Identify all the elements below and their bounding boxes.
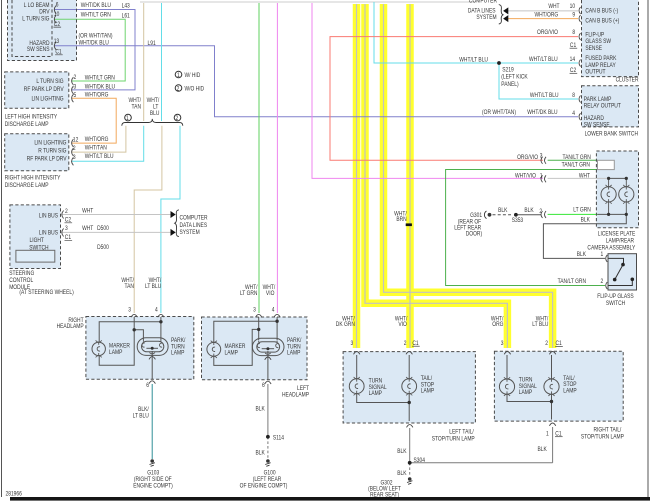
svg-text:WHT/DK BLU: WHT/DK BLU [527,110,557,117]
tail grounds labels [380,447,547,487]
license box name [587,231,635,252]
svg-text:OF ENGINE COMPT): OF ENGINE COMPT) [240,483,288,490]
svg-text:BLK: BLK [577,252,587,259]
wire pin3 drop to stadium [258,317,260,340]
connector arcs cluster pins 10/9/8/14 [579,7,581,67]
wire ORG/VIO cluster pin8 to license plate pin3 [330,37,578,161]
wire core WHT/DK GRN [356,4,358,348]
right HID lamp dashed box [5,134,69,171]
left headlamp interior wiring [214,317,277,380]
wire marker top to pin4 line [214,321,277,342]
wire BLK right tail drop [552,427,554,463]
svg-text:SW SENS: SW SENS [27,47,50,54]
svg-text:3: 3 [501,341,504,348]
connector arcs left headlamp pins 3/4 [256,314,281,317]
svg-text:BLU: BLU [150,111,160,118]
svg-text:2: 2 [404,341,407,348]
wire WHT/LT GRN feed to left headlamp pin3 [258,3,260,313]
svg-text:BLK: BLK [397,449,407,456]
svg-text:STEERING: STEERING [9,271,34,278]
body control module outer dashed box [8,0,77,61]
connector arcs steering pins 2/3 [62,211,64,237]
ground G100 [265,459,270,466]
svg-text:L TURN SIG: L TURN SIG [22,16,49,23]
svg-text:VIO: VIO [398,322,406,329]
svg-text:R TURN SIG: R TURN SIG [38,148,66,155]
wire WHT LIN BUS pin2 to data-lines arrow [62,214,171,216]
svg-text:FUSED PARK: FUSED PARK [585,56,616,63]
svg-text:2: 2 [545,341,548,348]
svg-text:WHT/LT BLU: WHT/LT BLU [529,57,558,64]
svg-text:L91: L91 [148,40,156,47]
wire lamp bottom rail (dark) [598,213,627,215]
wire WHT/LT BLU S219 drop to lower bank pin8 [499,63,578,99]
left headlamp box fill [202,317,308,380]
svg-text:LAMP: LAMP [421,388,435,395]
svg-text:DK GRN: DK GRN [336,322,355,329]
inline connector mark on WHT/BRN wire [406,223,412,226]
tail box names [432,427,624,442]
flip-up glass switch solid box [608,254,637,290]
data lines arrow right (to steering wires) top [171,211,176,218]
underline C2/C1 BCM [53,27,62,55]
svg-text:DATA LINES: DATA LINES [179,223,207,230]
svg-text:SYSTEM: SYSTEM [476,15,497,22]
junction dot right tail [550,400,553,403]
marker lamp bulb left headlamp [207,341,221,358]
steering control module labels [39,213,58,237]
wire BLK dashed S304 to G302 [409,463,411,476]
svg-text:6: 6 [56,2,59,9]
svg-text:12: 12 [73,137,78,144]
svg-text:BLK: BLK [256,406,266,413]
wire L61 WHT/LT GRN: BCM pin10 to left HID pin2 [55,19,126,81]
svg-text:MARKER: MARKER [109,343,130,350]
svg-text:ORG/VIO: ORG/VIO [517,155,538,162]
circled 2 legend [175,85,182,92]
svg-text:WHT/DK BLU: WHT/DK BLU [85,84,115,91]
turn signal bulb left tail [349,377,364,395]
svg-text:COMPUTER: COMPUTER [179,215,207,222]
tail/stop bulb left tail [402,377,417,395]
license plate lamp bulb right [619,178,634,214]
junction dot left headlamp pin4 [275,320,278,323]
svg-text:LIN BUS: LIN BUS [39,230,58,237]
right HID labels [27,140,67,163]
svg-text:LAMP: LAMP [171,350,185,357]
svg-text:CLUSTER: CLUSTER [616,77,639,84]
svg-text:2: 2 [601,279,604,286]
svg-text:TAN/LT GRN: TAN/LT GRN [562,162,590,169]
YELLOW [357,4,553,348]
svg-text:W/ HID: W/ HID [185,73,201,80]
data lines arrow left (can bus) top [503,7,508,14]
wire BLK S353 to license pin2 [518,214,542,216]
svg-text:1: 1 [601,252,604,259]
svg-text:2: 2 [539,208,542,215]
wire pin4 drop into stadium right element [276,317,278,340]
svg-text:COMPUTER: COMPUTER [469,0,497,4]
wire WHT/LT BLU park relay: S219 run [374,2,578,63]
svg-text:WHT/VIO: WHT/VIO [515,173,536,180]
svg-text:WHT/ORG: WHT/ORG [534,12,558,19]
wire WHT D500 LIN BUS pin3 to data-lines arrow [62,231,171,233]
svg-text:1: 1 [177,72,180,79]
wire WHT/VIO to license plate lamp pin1 [312,3,543,178]
svg-text:WHT/DK BLU: WHT/DK BLU [78,40,108,47]
wire WHT/ORG can bus plus [508,18,578,20]
svg-text:W/O HID: W/O HID [185,86,205,93]
svg-text:WHT/LT BLU: WHT/LT BLU [459,57,488,64]
brace left data lines [175,210,179,237]
left HID discharge lamp box fill [5,72,69,108]
svg-text:SYSTEM: SYSTEM [179,230,200,237]
wire WHT/ORG U-loop: left HID pin5 to right HID pin12 [72,98,116,143]
svg-text:6: 6 [146,382,149,389]
cluster box fill [582,0,639,77]
splice S219 dot [497,61,501,65]
svg-text:LEFT HIGH INTENSITY: LEFT HIGH INTENSITY [5,114,58,121]
junction dot left headlamp pin3 [257,328,260,331]
svg-text:STOP/TURN LAMP: STOP/TURN LAMP [581,434,624,441]
ground G103 [150,459,155,466]
svg-text:L43: L43 [122,3,130,10]
right tail interior wiring [507,355,552,420]
connector arcs right headlamp pins 3/4 (vertical) [131,314,164,317]
lower bank switch box fill [582,86,639,127]
svg-text:(OR WHT/TAN): (OR WHT/TAN) [482,110,516,117]
svg-text:2: 2 [73,75,76,82]
svg-text:(OR WHT/TAN): (OR WHT/TAN) [78,33,112,40]
svg-text:3: 3 [73,84,76,91]
cluster rows [529,4,575,64]
wire L43 WHT/DK BLU: BCM pin6 to left HID pin3 [55,10,135,90]
svg-text:SENSE: SENSE [585,46,602,53]
cluster dashed box [582,0,639,77]
lower bank switch dashed box [582,86,639,127]
svg-text:(LEFT KICK: (LEFT KICK [501,74,528,81]
svg-text:3: 3 [351,341,354,348]
svg-text:4: 4 [155,307,158,314]
svg-text:3: 3 [65,226,68,233]
data lines arrow left (can bus) bottom [503,15,508,22]
wire marker top to pin4 line [99,322,161,342]
svg-text:8: 8 [572,93,575,100]
svg-text:LT BLU: LT BLU [145,284,161,291]
steering control module dashed box [10,205,61,269]
svg-text:1: 1 [126,116,129,123]
right tail dashed box [494,351,623,421]
svg-text:S219: S219 [502,67,513,74]
page left border [1,0,3,497]
connector arcs license pins 3/1/2 (double) [541,157,546,218]
brace right data lines [499,5,503,24]
svg-text:5: 5 [73,93,76,100]
junction dot right headlamp pin3 [133,328,136,331]
splice S304 dot [408,461,412,465]
wire TAN/LT GRN return loop to flip-up switch pin2 [446,170,605,286]
svg-text:WHT: WHT [82,226,94,233]
svg-text:WHT: WHT [548,4,560,11]
connector arcs lower bank pins 8/4 [579,96,581,121]
svg-text:D500: D500 [97,244,109,251]
svg-text:L TURN SIG: L TURN SIG [36,79,63,86]
wire marker loop bottom [99,330,134,365]
bottom black bar [10,497,650,501]
svg-text:8: 8 [572,30,575,37]
svg-text:TAN: TAN [132,104,141,111]
junction dot park/turn bottom left headlamp [266,347,269,350]
wire BLK left tail to S304 [409,428,411,463]
steering control module box fill [10,205,61,269]
svg-text:LOWER BANK SWITCH: LOWER BANK SWITCH [585,131,638,138]
license plate rows [515,153,591,224]
wire park/turn bottom out [151,351,153,379]
svg-text:RF PARK LP DRV: RF PARK LP DRV [27,156,67,163]
wire pin3 drop to junction [133,317,135,330]
svg-text:WHT: WHT [579,173,591,180]
page right border [647,0,649,497]
right headlamp interior wiring [99,317,161,379]
svg-text:BLK: BLK [256,450,266,457]
svg-text:L LO BEAM: L LO BEAM [24,3,50,10]
wire TAN/LT GRN into license assembly [548,159,598,161]
wire marker loop bottom [214,329,259,365]
svg-text:SWITCH: SWITCH [606,300,625,307]
svg-text:(AT STEERING WHEEL): (AT STEERING WHEEL) [19,290,73,297]
svg-text:TAN/LT GRN: TAN/LT GRN [558,279,586,286]
svg-text:WHT/LT BLU: WHT/LT BLU [85,154,114,161]
circled 2 at brace [174,114,181,121]
turn signal bulb right tail [499,377,514,396]
svg-text:RELAY OUTPUT: RELAY OUTPUT [584,103,622,110]
HID variant split brace [122,119,183,126]
right headlamp labels [57,317,85,330]
wire core WHT/ORG [365,4,507,348]
svg-text:LAMP: LAMP [109,350,123,357]
junction dot left tail [408,401,411,404]
svg-text:LIN LIGHTING: LIN LIGHTING [34,140,66,147]
svg-text:10: 10 [54,12,59,19]
wire WHT/LT BLU main feed (top) [161,3,163,121]
svg-text:SWITCH: SWITCH [29,245,48,252]
svg-text:LIN LIGHTING: LIN LIGHTING [31,96,63,103]
tail feeds wire labels [336,211,549,328]
svg-text:LAMP: LAMP [369,391,383,398]
flip-up switch labels [558,252,604,285]
connector arcs left tail pins 3/2 [354,352,413,428]
svg-text:BLK: BLK [498,208,508,215]
svg-text:1: 1 [540,173,543,180]
body control module box fill (top-left) [8,0,77,61]
junction dot park/turn bottom right headlamp [151,347,154,350]
wire pin4 drop into park/turn right element [160,317,162,340]
body control module inner connector dashed box [12,0,52,57]
wire BLK/LT BLU right headlamp ground [151,384,153,459]
svg-text:2: 2 [65,208,68,215]
svg-text:LT BLU: LT BLU [532,322,548,329]
svg-text:BLK: BLK [581,217,591,224]
svg-text:4: 4 [572,111,575,118]
park/turn lamp left headlamp [252,338,284,355]
svg-text:CAMERA ASSEMBLY: CAMERA ASSEMBLY [587,245,635,252]
right tail lamp box fill [494,351,623,421]
svg-text:LT GRN: LT GRN [573,207,591,214]
svg-text:LEFT: LEFT [297,385,310,392]
svg-text:LT BLU: LT BLU [133,413,149,420]
ground G301 [484,211,491,219]
svg-text:BRN: BRN [396,217,406,224]
svg-text:LAMP: LAMP [519,390,533,397]
svg-text:3: 3 [128,307,131,314]
highlight wire WHT/ORG (right tail turn) [365,4,507,348]
splice S114 dot [266,435,270,439]
svg-text:ENGINE COMPT): ENGINE COMPT) [133,483,173,490]
svg-text:1: 1 [546,431,549,438]
svg-text:2: 2 [177,86,180,93]
wire LT GRN license lamp ground side [548,213,598,215]
svg-text:14: 14 [570,57,575,64]
tail/stop bulb right tail [544,377,559,396]
circled 1 legend [175,71,182,78]
svg-text:LAMP: LAMP [563,388,577,395]
G301 labels [454,208,542,238]
splice S353 dot [514,213,518,217]
license plate assembly dashed box [596,151,638,228]
svg-text:3: 3 [73,154,76,161]
svg-text:9: 9 [572,12,575,19]
data lines arrow right (to steering wires) bottom [171,229,176,236]
HID column labels upper [128,98,159,117]
svg-text:CAN B BUS (-): CAN B BUS (-) [585,8,618,15]
right HID discharge lamp box fill [5,134,69,171]
svg-text:DOOR): DOOR) [466,231,483,238]
connector arcs flip-up switch pins 1/2 [606,255,608,289]
svg-text:CAN B BUS (+): CAN B BUS (+) [585,18,619,25]
wire core WHT/BRN [409,4,411,348]
svg-text:ORG: ORG [492,322,503,329]
highlight wire WHT/LT BLU (right tail stop) [384,4,553,348]
license plate lamp bulb left [601,178,616,214]
svg-text:BLK: BLK [538,447,548,454]
connector arcs headlamp pin6 exits [149,357,271,384]
svg-text:TAN/LT GRN: TAN/LT GRN [562,155,590,162]
svg-text:HEADLAMP: HEADLAMP [282,392,309,399]
wire core WHT/LT BLU [384,4,553,348]
svg-text:D500: D500 [97,226,109,233]
svg-text:WHT/LT GRN: WHT/LT GRN [81,12,111,19]
svg-text:OUTPUT: OUTPUT [585,69,606,76]
highlight wire WHT/DK GRN (left tail turn) [353,4,361,348]
svg-text:WHT/ORG: WHT/ORG [85,137,109,144]
svg-text:PANEL): PANEL) [501,81,519,88]
connector arcs BCM pins 6/10/13 [54,6,56,50]
flip-up switch contact dots [621,263,625,267]
svg-text:RF PARK LP DRV: RF PARK LP DRV [24,87,64,94]
svg-text:DISCHARGE LAMP: DISCHARGE LAMP [5,122,49,129]
marker lamp bulb right headlamp [92,340,105,357]
junction dot right headlamp pin4 [159,320,162,323]
left HID lamp dashed box [5,72,69,108]
svg-text:L61: L61 [122,13,130,20]
park/turn lamp right headlamp (dual filament) [137,338,168,356]
svg-text:S114: S114 [273,435,284,442]
wire WHT/LT BLU w/HID branch to right HID pin3 [72,126,144,162]
wire WHT/TAN w/HID branch to right HID pin2 [72,126,126,152]
svg-text:3: 3 [253,307,256,314]
highlight wire WHT/BRN - WHT/VIO (left tail stop) [406,4,414,348]
license plate lamp box fill [596,151,638,228]
left tail lamp box fill [343,352,475,423]
connector arcs right HID pins 12/2/3 [72,139,74,165]
svg-text:STOP/TURN LAMP: STOP/TURN LAMP [432,436,475,443]
wire BLK license to flip-up switch pin1 [543,214,626,258]
svg-text:2: 2 [73,146,76,153]
left HID labels [24,79,64,103]
right headlamp box fill [86,317,194,380]
BCM labels [22,3,50,54]
svg-text:SW SENSE: SW SENSE [584,122,610,129]
svg-text:LAMP RELAY: LAMP RELAY [585,63,616,70]
svg-text:S353: S353 [512,218,523,225]
wire BLK dashed S114 to G100 [267,437,269,458]
svg-text:RIGHT HIGH INTENSITY: RIGHT HIGH INTENSITY [5,175,61,182]
wire BLK left headlamp to S114 [267,384,269,437]
svg-text:DISCHARGE LAMP: DISCHARGE LAMP [5,182,49,189]
connector arcs right tail pins 3/2/1 [504,352,556,426]
flip-up glass switch box fill [608,254,637,290]
wire jog into park/turn left element [134,330,143,340]
svg-text:10: 10 [570,4,575,11]
computer data lines right instance [468,0,497,21]
connector arcs left HID pins 2/3/5 [72,77,74,102]
svg-text:LICENSE PLATE: LICENSE PLATE [598,231,636,238]
svg-text:VIO: VIO [266,291,274,298]
svg-text:DRV: DRV [39,9,50,16]
left headlamp dashed box [202,317,308,380]
wire park/turn bottom out [267,351,269,380]
svg-text:FLIP-UP GLASS: FLIP-UP GLASS [597,294,634,301]
svg-text:CONTROL: CONTROL [9,278,33,285]
svg-text:WHT/LT BLU: WHT/LT BLU [530,93,559,100]
svg-text:GLASS SW: GLASS SW [585,39,611,46]
lower bank rows [482,93,575,118]
svg-text:4: 4 [272,307,275,314]
svg-text:ORG/VIO: ORG/VIO [537,30,558,37]
wire BLK S304 to right tail [410,462,553,464]
steering light switch inner rect [16,250,55,262]
left tail interior wiring [357,355,410,421]
svg-text:LT GRN: LT GRN [240,291,258,298]
circled 1 at brace [125,114,132,121]
wire BLK dashed G301 segment [493,214,512,216]
svg-text:LIN BUS: LIN BUS [39,213,58,220]
svg-text:WHT/TAN: WHT/TAN [85,145,107,152]
svg-text:BLK: BLK [397,471,407,478]
svg-text:HEADLAMP: HEADLAMP [57,324,84,331]
svg-text:281966: 281966 [6,491,22,498]
svg-text:LIGHT: LIGHT [29,238,44,245]
wire top edge remnant (gray) [140,1,475,3]
svg-text:2: 2 [175,116,178,123]
svg-text:RIGHT TAIL/: RIGHT TAIL/ [593,427,621,434]
left tail dashed box [343,352,475,423]
svg-text:FLIP-UP: FLIP-UP [585,32,604,39]
wire WHT license lamp feed [548,177,609,179]
svg-text:3: 3 [540,153,543,160]
ground G302 [407,477,412,484]
svg-text:13: 13 [54,39,59,46]
